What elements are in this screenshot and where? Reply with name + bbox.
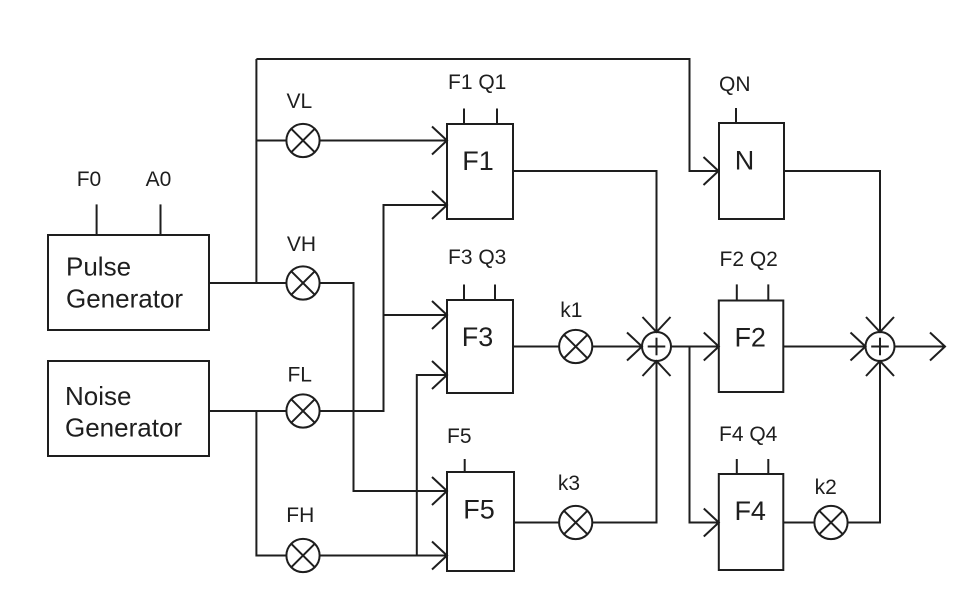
svg-text:Generator: Generator [66, 284, 183, 314]
wire N output to adder A2 top [784, 171, 894, 332]
svg-text:QN: QN [719, 73, 751, 96]
svg-text:F1 Q1: F1 Q1 [448, 71, 506, 94]
pins F4 Q4 (filter F4) [719, 423, 778, 474]
filter F5 [447, 472, 514, 571]
svg-text:F2 Q2: F2 Q2 [720, 248, 778, 271]
svg-text:F5: F5 [447, 425, 472, 448]
svg-text:FH: FH [286, 504, 314, 527]
wire F5 output [514, 522, 559, 524]
svg-text:F4: F4 [734, 496, 766, 526]
svg-text:VL: VL [286, 90, 312, 113]
svg-text:k3: k3 [558, 472, 580, 495]
noise generator [48, 361, 209, 456]
wire F4 output [783, 522, 814, 524]
nasal filter N [719, 123, 784, 219]
svg-text:Noise: Noise [65, 381, 131, 411]
filter F2 [719, 301, 784, 393]
wire F3 output [513, 346, 559, 348]
multiplier VL [286, 90, 319, 157]
wire top bypass to N [256, 59, 718, 185]
wire FL branch to F3 input 1 [384, 301, 448, 329]
svg-text:k1: k1 [560, 299, 582, 322]
pin F5 (filter F5) [447, 425, 472, 472]
multiplier k3 [558, 472, 592, 539]
svg-text:N: N [735, 146, 755, 176]
adder A2 [866, 332, 895, 361]
wire voiced riser (junction to top wire) [255, 59, 257, 283]
wire adder A1 to F2 input [671, 333, 719, 361]
svg-text:F0: F0 [77, 168, 102, 191]
svg-text:F1: F1 [462, 146, 494, 176]
multiplier FH [286, 504, 319, 572]
wire FH to F5 input 2 [320, 542, 447, 570]
svg-text:A0: A0 [146, 168, 172, 191]
svg-text:F3: F3 [462, 322, 494, 352]
svg-text:F4 Q4: F4 Q4 [719, 423, 778, 446]
multiplier k1 [559, 299, 592, 363]
pins F1 Q1 (filter F1) [448, 71, 506, 124]
pulse generator [48, 235, 209, 330]
wire k1 to adder A1 [592, 333, 642, 361]
multiplier FL [286, 364, 319, 428]
svg-text:Pulse: Pulse [66, 252, 131, 282]
pins F3 Q3 (filter F3) [448, 246, 506, 300]
svg-text:F5: F5 [463, 495, 495, 525]
filter F1 [447, 124, 513, 219]
wire FL riser to F1 input 2 [320, 191, 447, 411]
svg-text:Generator: Generator [65, 413, 182, 443]
filter F3 [447, 300, 513, 393]
svg-text:k2: k2 [815, 476, 837, 499]
wire k2 to adder A2 bottom [848, 361, 894, 523]
wire k3 to adder A1 bottom [592, 361, 670, 523]
pin QN (nasal filter N) [719, 73, 751, 123]
multiplier k2 [814, 476, 847, 539]
wire final output [895, 333, 946, 361]
wire VL branch [256, 140, 286, 142]
wire F1 output to adder A1 top [513, 171, 671, 332]
filter F4 [719, 474, 784, 570]
wire pulse generator output [209, 282, 286, 284]
wire noise generator output [209, 410, 286, 412]
pins F2 Q2 (filter F2) [720, 248, 778, 301]
svg-text:F3 Q3: F3 Q3 [448, 246, 506, 269]
wire FH branch riser to F3 input 2 [417, 361, 447, 556]
wire adder A1 branch to F4 input [690, 347, 719, 537]
svg-text:VH: VH [287, 233, 316, 256]
wire VL to F1 input 1 [320, 127, 447, 155]
wire noise dropper to FH [256, 411, 286, 556]
pin F0 (pulse generator) [77, 168, 102, 235]
wire F2 output to adder A2 [783, 333, 865, 361]
pin A0 (pulse generator) [146, 168, 172, 235]
svg-text:FL: FL [287, 364, 312, 387]
wire VH to F5 input 1 [320, 283, 447, 505]
adder A1 [642, 332, 671, 361]
svg-text:F2: F2 [734, 323, 766, 353]
multiplier VH [286, 233, 319, 300]
